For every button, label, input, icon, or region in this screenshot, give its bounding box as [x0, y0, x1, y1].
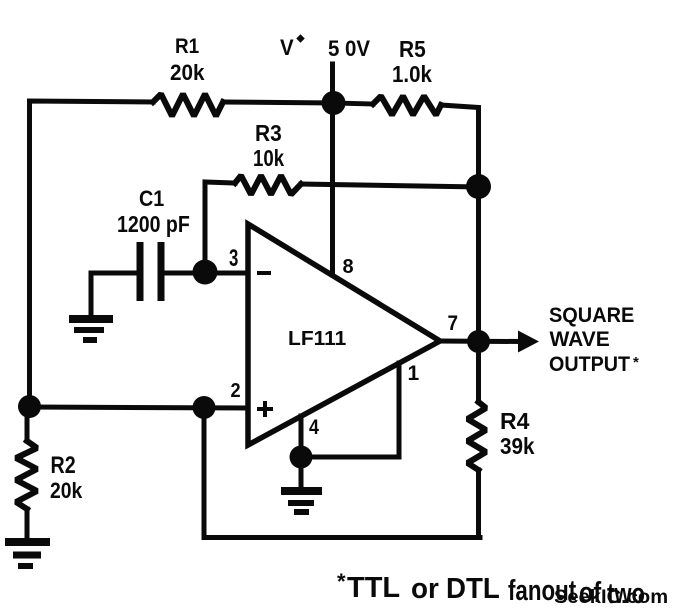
svg-text:fanout: fanout	[508, 575, 577, 606]
svg-text:OUTPUT: OUTPUT	[549, 353, 631, 376]
svg-text:DTL: DTL	[446, 572, 500, 605]
svg-text:1200 pF: 1200 pF	[117, 212, 190, 238]
svg-text:R5: R5	[399, 36, 426, 62]
svg-text:R2: R2	[51, 451, 76, 478]
svg-text:1.0k: 1.0k	[392, 61, 433, 87]
svg-text:SQUARE: SQUARE	[549, 304, 634, 328]
svg-text:or: or	[411, 572, 439, 605]
svg-text:8: 8	[343, 256, 354, 278]
svg-text:5 0V: 5 0V	[328, 36, 371, 61]
svg-text:LF111: LF111	[288, 327, 346, 349]
svg-text:10k: 10k	[253, 146, 284, 171]
svg-text:20k: 20k	[50, 479, 83, 503]
svg-text:3: 3	[229, 245, 238, 272]
svg-text:WAVE: WAVE	[550, 328, 610, 351]
svg-text:V: V	[280, 35, 294, 60]
svg-text:of: of	[579, 576, 601, 609]
svg-text:2: 2	[231, 380, 241, 402]
svg-text:C1: C1	[139, 187, 165, 211]
svg-text:7: 7	[448, 312, 459, 335]
svg-text:*: *	[337, 569, 346, 594]
svg-text:R1: R1	[175, 35, 199, 58]
svg-text:20k: 20k	[170, 60, 205, 85]
svg-text:two: two	[607, 578, 645, 610]
svg-text:1: 1	[408, 362, 420, 385]
svg-text:39k: 39k	[500, 433, 535, 459]
svg-text:R4: R4	[500, 408, 530, 434]
svg-text:R3: R3	[255, 120, 282, 146]
svg-text:*: *	[633, 354, 639, 371]
svg-text:TTL: TTL	[347, 572, 400, 604]
svg-text:4: 4	[309, 416, 319, 440]
